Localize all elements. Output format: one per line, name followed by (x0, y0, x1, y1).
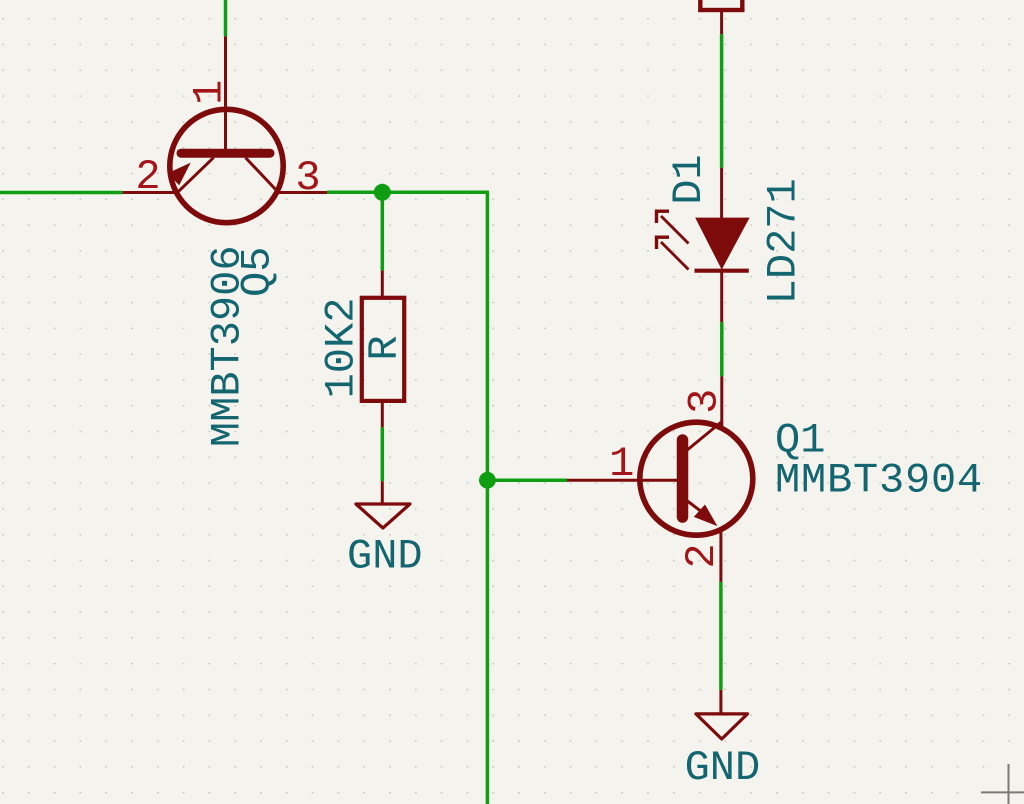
value 10K2 of resistor (318, 298, 366, 399)
pin number 3 of Q5 (295, 154, 320, 202)
svg-text:1: 1 (185, 80, 233, 105)
transistor Q5 (122, 36, 327, 222)
junction (374, 184, 391, 201)
reference Q1 (775, 417, 825, 465)
GND label (347, 533, 423, 581)
wire (487, 478, 567, 482)
reference D1 (665, 154, 713, 204)
wire (381, 192, 385, 270)
pin number 2 of Q5 (135, 153, 160, 201)
wire (719, 582, 723, 690)
resistor R2 (top, partially offscreen) (700, 0, 742, 34)
svg-text:MMBT3904: MMBT3904 (775, 456, 983, 504)
svg-text:10K2: 10K2 (318, 298, 366, 399)
wire (224, 0, 228, 36)
resistor R 10K2 (362, 271, 404, 428)
value LD271 (760, 178, 808, 304)
svg-text:Q5: Q5 (234, 247, 282, 297)
svg-text:2: 2 (678, 543, 726, 568)
cursor crosshair (981, 764, 1024, 804)
wire (381, 427, 385, 481)
ground (356, 481, 410, 528)
pin number 1 of Q1 (609, 440, 634, 488)
GND label (685, 744, 761, 792)
svg-text:1: 1 (609, 440, 634, 488)
svg-text:3: 3 (295, 154, 320, 202)
wire (720, 34, 724, 168)
pin number 2 of Q1 (678, 543, 726, 568)
ground (696, 690, 748, 739)
svg-text:LD271: LD271 (760, 178, 808, 304)
svg-text:2: 2 (135, 153, 160, 201)
svg-text:GND: GND (347, 533, 423, 581)
wire (486, 192, 490, 804)
wire (0, 191, 122, 195)
value MMBT3904 (775, 456, 983, 504)
reference R of resistor (361, 335, 409, 360)
pin number 3 of Q1 (681, 389, 729, 414)
reference Q5 (234, 247, 282, 297)
junction (479, 472, 496, 489)
value MMBT3906 of Q5 (204, 245, 252, 447)
transistor Q1 (567, 376, 753, 582)
svg-text:GND: GND (685, 744, 761, 792)
svg-text:R: R (361, 335, 409, 360)
LED D1 (655, 168, 750, 322)
svg-text:D1: D1 (665, 154, 713, 204)
wire (720, 322, 724, 376)
pin number 1 of Q5 (185, 80, 233, 105)
wire (327, 191, 489, 195)
svg-text:3: 3 (681, 389, 729, 414)
